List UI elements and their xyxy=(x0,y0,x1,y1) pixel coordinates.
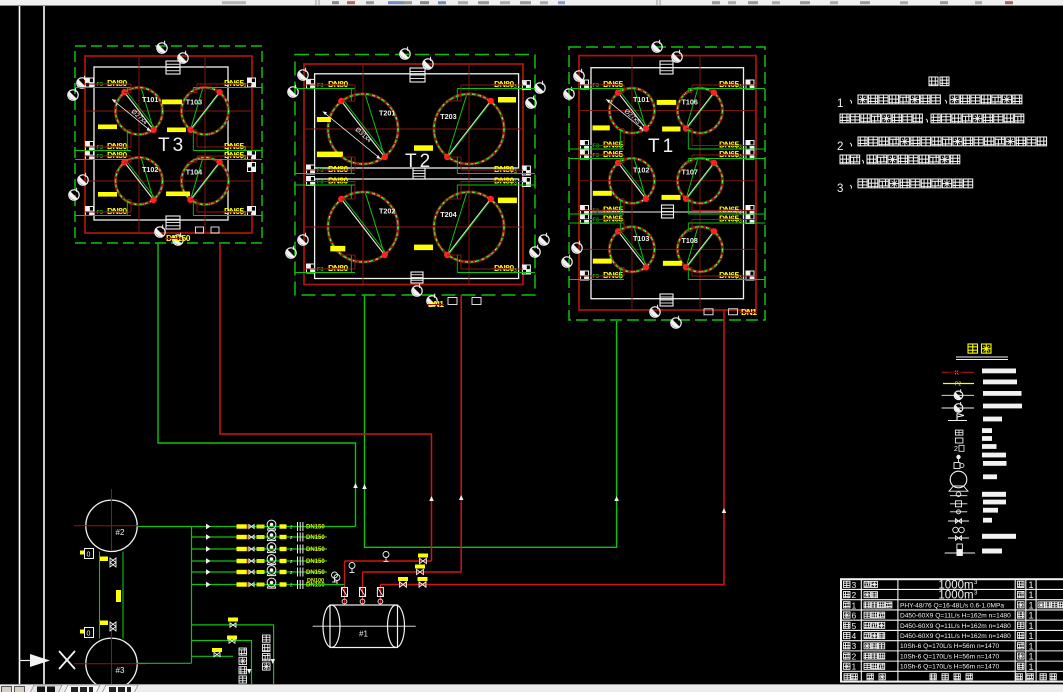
svg-text:2: 2 xyxy=(954,446,958,453)
tank T201 xyxy=(323,94,398,164)
T3 top stair hatch xyxy=(166,61,180,74)
svg-text:DN65: DN65 xyxy=(603,214,624,224)
svg-text:1: 1 xyxy=(852,662,857,672)
T3 cluster links xyxy=(130,84,132,93)
lower green branch 2 xyxy=(192,641,252,692)
T3 bottom tick boxes xyxy=(196,227,204,233)
T2 top stair hatch xyxy=(410,68,425,82)
manifold components xyxy=(206,524,211,530)
T1 bottom tick boxes xyxy=(704,309,713,315)
sheet border line 1 xyxy=(19,6,21,684)
T3 pipe labels right xyxy=(223,78,245,88)
svg-text:1: 1 xyxy=(1029,611,1034,621)
svg-text:1000m: 1000m xyxy=(938,590,973,602)
gauges on red lines xyxy=(383,552,389,562)
tank 1 right bowties xyxy=(400,582,407,587)
svg-text:P2: P2 xyxy=(955,382,961,388)
T1 centerline vertical B xyxy=(699,56,701,310)
title block table xyxy=(841,579,1063,681)
svg-text:T201: T201 xyxy=(379,109,395,118)
notes line 2 xyxy=(840,114,849,123)
T3 centerline horizontal A xyxy=(85,110,252,112)
branch valves xyxy=(228,618,238,622)
manifold lines xyxy=(137,526,355,528)
svg-text:4: 4 xyxy=(852,631,857,641)
svg-text:DN80: DN80 xyxy=(328,79,349,89)
svg-text:DN80: DN80 xyxy=(328,176,349,186)
T1 centerline vertical A xyxy=(631,56,633,310)
svg-text:T2: T2 xyxy=(405,151,433,172)
T2 mid stair hatch xyxy=(413,168,425,179)
svg-text:DN150: DN150 xyxy=(306,535,325,541)
T1 mid stair hatch xyxy=(662,205,674,218)
svg-text:T203: T203 xyxy=(440,112,456,121)
svg-text:T3: T3 xyxy=(158,135,186,156)
svg-text:2: 2 xyxy=(852,590,857,600)
red manifold line 2 xyxy=(363,571,462,573)
T3 centerline horizontal B xyxy=(85,180,252,182)
T1 bottom DN label xyxy=(740,307,757,317)
table header row xyxy=(844,674,1056,680)
lower green to pump3 xyxy=(137,662,191,664)
top toolbar strip xyxy=(0,0,1063,5)
T1 hydrant boxes right xyxy=(746,80,754,89)
svg-text:#2: #2 xyxy=(116,528,125,537)
tank group T3 inner white platform xyxy=(94,67,228,220)
sheet arrow xyxy=(30,654,50,667)
tank T104 xyxy=(182,158,229,205)
vertical text column 1 xyxy=(239,648,247,655)
tank 1 vessel body xyxy=(313,605,416,648)
T1 yellow pipe bars xyxy=(657,100,677,105)
tank1 riser C xyxy=(379,585,381,605)
svg-text:T101: T101 xyxy=(142,95,158,104)
T3 bottom DN label xyxy=(165,233,191,243)
T2 hydrant boxes left xyxy=(307,79,315,88)
tank1 riser A xyxy=(344,561,346,604)
vertical text column 2 xyxy=(263,635,271,642)
T3 bottom stair hatch xyxy=(166,216,180,229)
tank T106 xyxy=(678,88,723,133)
svg-text:DN80: DN80 xyxy=(328,263,349,273)
tank group T2 outer green boundary xyxy=(295,55,535,296)
svg-text:D450-60X9 Q=11L/s H=162m n=148: D450-60X9 Q=11L/s H=162m n=1480 xyxy=(900,633,1011,640)
flow arrows xyxy=(353,483,358,488)
svg-text:DN1: DN1 xyxy=(428,299,444,309)
svg-text:1: 1 xyxy=(1029,641,1034,651)
tank T202 xyxy=(328,192,398,262)
svg-text:DN65: DN65 xyxy=(603,79,624,89)
green pipe from T3 xyxy=(158,243,356,527)
notes title shuoming xyxy=(929,77,938,86)
svg-text:K: K xyxy=(955,371,959,377)
pump connection verticals xyxy=(99,552,101,639)
svg-text:D450-60X9 Q=11L/s H=162m n=148: D450-60X9 Q=11L/s H=162m n=1480 xyxy=(900,613,1011,620)
tank group T2 red dike wall xyxy=(304,64,523,285)
svg-text:1: 1 xyxy=(1029,662,1034,672)
tank T204 xyxy=(434,192,504,262)
tank T203 xyxy=(434,94,504,164)
T3 centerline vertical A xyxy=(138,56,140,233)
T2 north symbols xyxy=(400,47,410,59)
tank T108 xyxy=(678,227,723,272)
T3 hydrant boxes left xyxy=(86,78,94,87)
svg-text:T106: T106 xyxy=(682,97,698,106)
T1 pipe labels right xyxy=(718,79,740,89)
svg-text:DN150: DN150 xyxy=(306,525,325,531)
svg-text:1: 1 xyxy=(1029,631,1034,641)
svg-text:T1: T1 xyxy=(648,136,676,157)
svg-text:6: 6 xyxy=(852,611,857,621)
table rows text xyxy=(844,580,1034,592)
svg-text:T101: T101 xyxy=(633,95,649,104)
manifold bus xyxy=(191,526,193,663)
T2 bottom DN label xyxy=(427,299,444,309)
riser valves xyxy=(342,588,348,597)
green pipe T2 to T1 xyxy=(365,295,617,547)
red pipe from T1 xyxy=(380,310,724,585)
red pipe from T2 xyxy=(460,295,462,572)
svg-text:10Sh-6 Q=170L/s H=56m n=1470: 10Sh-6 Q=170L/s H=56m n=1470 xyxy=(900,653,999,660)
svg-text:3: 3 xyxy=(852,580,857,590)
tank 1 green feed xyxy=(313,584,345,586)
T1 top stair hatch xyxy=(660,61,673,74)
tank group T1 red dike wall xyxy=(579,56,756,310)
svg-text:T103: T103 xyxy=(633,234,649,243)
svg-text:DN150: DN150 xyxy=(306,547,325,553)
tank1 riser B xyxy=(362,572,364,604)
X marker xyxy=(59,651,75,669)
svg-text:1: 1 xyxy=(1029,600,1034,610)
red manifold line 1 xyxy=(345,560,432,562)
T2 centerline vertical A xyxy=(362,64,364,284)
tank T101b xyxy=(606,88,654,133)
svg-text:3: 3 xyxy=(852,641,857,651)
svg-text:#3: #3 xyxy=(116,666,125,675)
svg-text:2: 2 xyxy=(852,651,857,661)
T3 hydrant boxes right xyxy=(248,78,256,87)
tank T102 xyxy=(116,158,163,205)
svg-text:T108: T108 xyxy=(682,236,698,245)
svg-text:PHY-48/76 Q=16-48L/s 0.6-1.0M: PHY-48/76 Q=16-48L/s 0.6-1.0MPa xyxy=(900,602,1004,609)
svg-text:1: 1 xyxy=(837,98,843,110)
notes line 4 xyxy=(840,155,849,164)
svg-text:0: 0 xyxy=(87,631,91,638)
tank group T3 outer green boundary xyxy=(75,46,262,243)
T2 bottom stair hatch xyxy=(411,272,423,283)
svg-text:D450-60X9 Q=11L/s H=162m n=148: D450-60X9 Q=11L/s H=162m n=1480 xyxy=(900,623,1011,630)
pump tank 3 circle xyxy=(86,638,137,689)
T1 centerline horizontal B xyxy=(579,180,756,182)
red pipe from T3 xyxy=(220,243,432,561)
svg-text:T103: T103 xyxy=(186,97,202,106)
svg-text:DN80: DN80 xyxy=(107,206,128,216)
pump tank 2 circle xyxy=(86,500,137,551)
tank T101 xyxy=(112,88,163,135)
tank group T1 outer green boundary xyxy=(569,47,765,320)
T3 yellow pipe bars xyxy=(162,100,182,105)
tank T103b xyxy=(610,227,655,272)
tank 1 gauge xyxy=(332,572,338,582)
T2 centerline horizontal A xyxy=(304,128,523,130)
tank T103 xyxy=(182,88,229,135)
tank group T3 red dike wall xyxy=(85,56,252,233)
svg-text:DN100: DN100 xyxy=(307,578,324,584)
svg-text:DN80: DN80 xyxy=(107,150,128,160)
tank group T2 white platform lower xyxy=(315,179,519,279)
T1 mid divider xyxy=(591,211,744,213)
bowtie valves on red lines xyxy=(420,558,427,563)
svg-text:T102: T102 xyxy=(142,165,158,174)
T2 centerline vertical B xyxy=(468,64,470,284)
svg-text:10Sh-6 Q=170L/s H=56m n=1470: 10Sh-6 Q=170L/s H=56m n=1470 xyxy=(900,664,999,671)
svg-text:1: 1 xyxy=(1029,580,1034,590)
svg-text:DN80: DN80 xyxy=(107,78,128,88)
svg-text:1: 1 xyxy=(1029,621,1034,631)
T1 north symbols xyxy=(652,40,662,52)
tank group T1 white platform xyxy=(591,68,744,299)
svg-text:T204: T204 xyxy=(440,210,456,219)
legend rows xyxy=(942,369,1016,377)
svg-text:T107: T107 xyxy=(682,168,698,177)
pump connection fittings xyxy=(80,551,84,555)
svg-text:DN65: DN65 xyxy=(603,149,624,159)
T2 hydrant boxes right xyxy=(522,81,530,90)
tank T107 xyxy=(678,158,723,203)
T1 hydrant boxes left xyxy=(581,80,589,89)
svg-text:1: 1 xyxy=(852,600,857,610)
svg-text:1: 1 xyxy=(1029,652,1034,662)
T2 bottom tick boxes xyxy=(448,298,457,305)
lower green branch 1 xyxy=(192,625,274,692)
svg-text:1: 1 xyxy=(1029,590,1034,600)
T1 cluster links xyxy=(623,85,625,93)
svg-text:T104: T104 xyxy=(186,167,202,176)
T1 bottom stair hatch xyxy=(660,294,673,306)
svg-text:10Sh-6 Q=170L/s H=56m n=1470: 10Sh-6 Q=170L/s H=56m n=1470 xyxy=(900,643,999,650)
tank T102b xyxy=(610,158,655,203)
T1 centerline horizontal A xyxy=(579,110,756,112)
svg-text:DN80: DN80 xyxy=(328,164,349,174)
svg-text:3: 3 xyxy=(837,183,843,195)
tank group T2 white platform upper xyxy=(315,74,519,168)
T2 yellow pipe bars xyxy=(498,97,516,103)
svg-text:5: 5 xyxy=(852,621,857,631)
svg-text:#1: #1 xyxy=(359,630,368,639)
svg-text:DN150: DN150 xyxy=(306,570,325,576)
legend title xyxy=(968,344,978,353)
svg-text:T202: T202 xyxy=(379,207,395,216)
model/layout tab bar xyxy=(0,684,1063,692)
svg-text:DN150: DN150 xyxy=(306,559,325,565)
T2 pipe labels right xyxy=(493,79,515,89)
T2 centerline horizontal B xyxy=(304,226,523,228)
T1 centerline horizontal C xyxy=(579,248,756,250)
svg-text:T102: T102 xyxy=(633,165,649,174)
svg-text:2: 2 xyxy=(837,141,843,153)
svg-text:DN150: DN150 xyxy=(166,233,191,243)
svg-text:0: 0 xyxy=(87,552,91,559)
T3 north symbols xyxy=(157,41,167,53)
svg-text:DN1: DN1 xyxy=(741,307,757,317)
T2 cluster links xyxy=(354,85,356,101)
T3 centerline vertical B xyxy=(204,56,206,233)
lower green branch 3 xyxy=(192,655,234,657)
sheet border line 2 xyxy=(43,6,45,684)
